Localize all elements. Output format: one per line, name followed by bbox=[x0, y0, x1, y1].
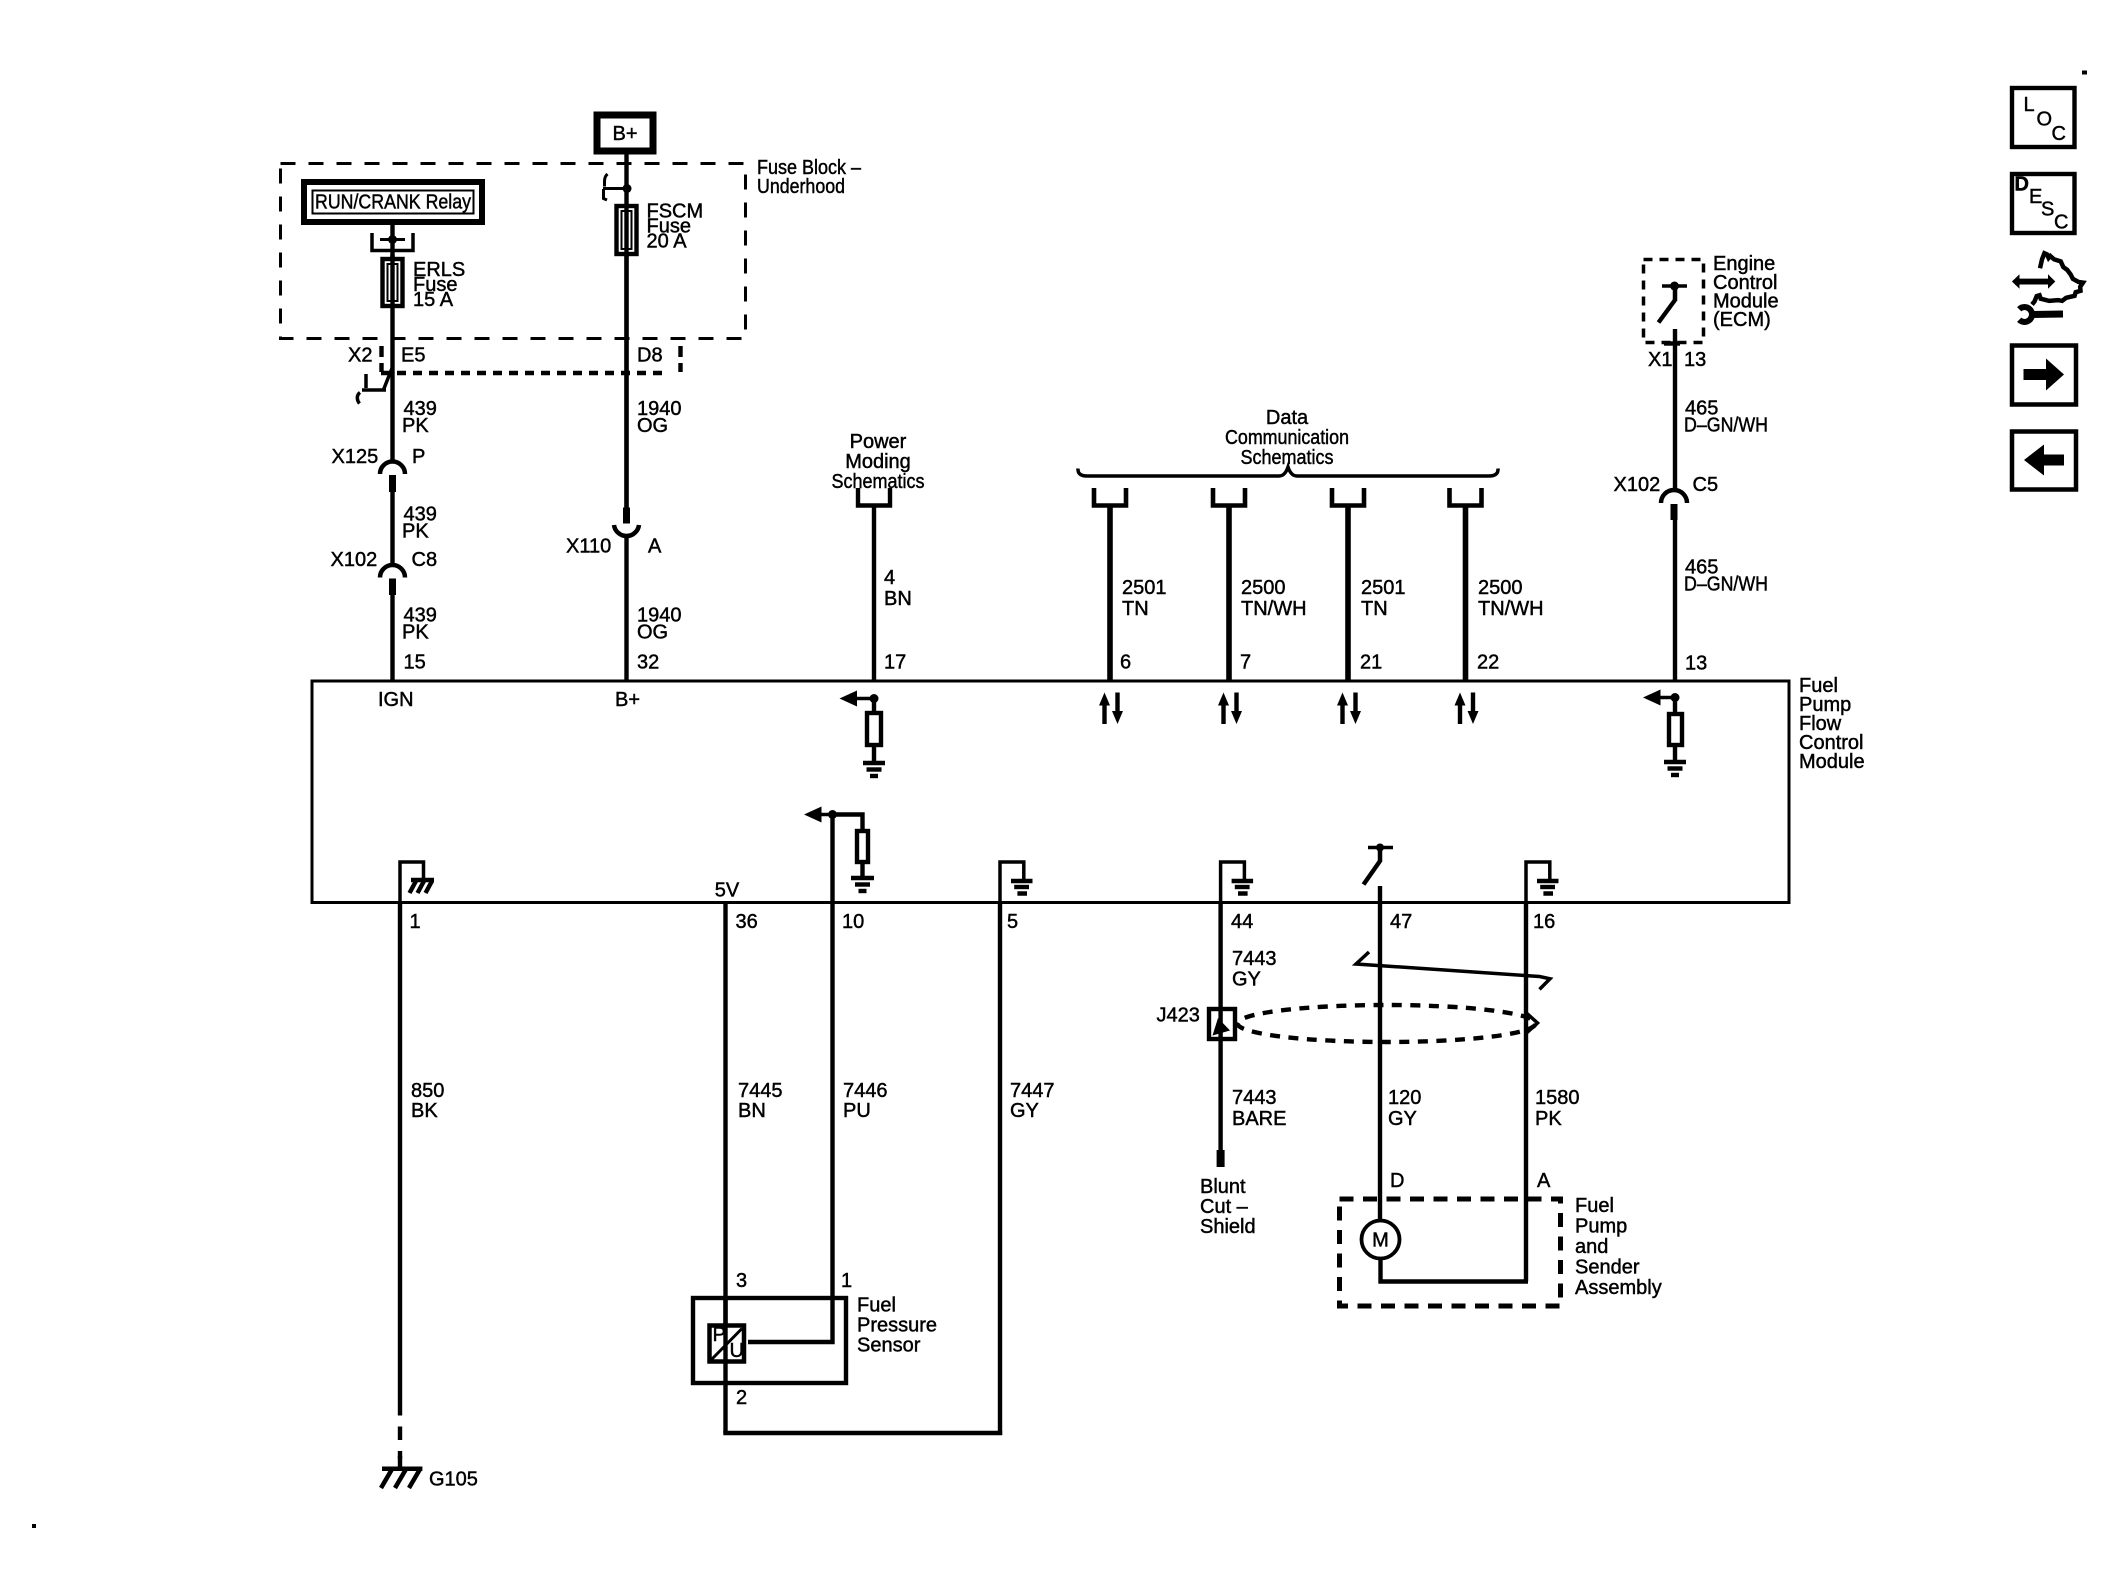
svg-text:2501: 2501 bbox=[1361, 577, 1406, 599]
connector X102 C5 in-line bbox=[1661, 490, 1687, 503]
svg-text:850: 850 bbox=[411, 1080, 444, 1102]
svg-text:TN/WH: TN/WH bbox=[1478, 598, 1544, 620]
wire 120 GY pin 47 to fuel pump motor bbox=[1378, 904, 1382, 1221]
blunt cut stub bbox=[1217, 1150, 1225, 1167]
svg-text:TN/WH: TN/WH bbox=[1241, 598, 1307, 620]
svg-text:17: 17 bbox=[884, 652, 906, 674]
svg-text:Shield: Shield bbox=[1200, 1216, 1256, 1238]
svg-text:S: S bbox=[2041, 199, 2054, 221]
svg-text:7443: 7443 bbox=[1232, 948, 1277, 970]
twisted leads symbol bbox=[1356, 952, 1550, 989]
svg-text:2: 2 bbox=[736, 1387, 747, 1409]
module Fuel Pump Flow Control Module box bbox=[312, 681, 1789, 903]
svg-text:13: 13 bbox=[1685, 653, 1707, 675]
svg-text:120: 120 bbox=[1388, 1087, 1421, 1109]
svg-text:X1: X1 bbox=[1648, 349, 1672, 371]
internal bidirectional arrows at pin 7 bbox=[1218, 693, 1242, 725]
internal earth ground at pin 5 bbox=[1000, 862, 1024, 904]
splice tab at B+ node bbox=[603, 174, 627, 200]
svg-text:G105: G105 bbox=[429, 1468, 478, 1490]
svg-text:7447: 7447 bbox=[1010, 1080, 1055, 1102]
internal bidirectional arrows at pin 22 bbox=[1455, 693, 1479, 725]
svg-text:GY: GY bbox=[1232, 968, 1261, 990]
fuse block underhood dashed box bbox=[281, 164, 746, 339]
wire ECM output bbox=[1673, 329, 1677, 490]
wire 1580 PK pin 16 to fuel pump bbox=[1524, 904, 1528, 1282]
internal earth ground at pin 44 bbox=[1221, 862, 1245, 904]
svg-text:X102: X102 bbox=[1614, 474, 1661, 496]
svg-text:7: 7 bbox=[1240, 652, 1251, 674]
svg-text:OG: OG bbox=[637, 622, 668, 644]
svg-text:BN: BN bbox=[884, 588, 912, 610]
wire B+ feed to FSCM fuse bbox=[624, 154, 628, 508]
internal arrow at pin 17 bbox=[855, 697, 874, 701]
wire 850 BK pin 1 to G105 bbox=[398, 904, 402, 1402]
wire 7446 PU pin 10 to sensor bbox=[748, 815, 833, 1343]
wire sensor bottom return bbox=[723, 1431, 1002, 1435]
svg-text:P: P bbox=[713, 1324, 726, 1346]
icon LOC box bbox=[2012, 88, 2075, 147]
svg-text:Sensor: Sensor bbox=[857, 1334, 921, 1356]
wire relay output bbox=[390, 225, 394, 257]
internal resistor at pin 13 bbox=[1673, 698, 1677, 715]
svg-text:1: 1 bbox=[841, 1270, 852, 1292]
wire 2501 TN to pin 6 bbox=[1107, 506, 1113, 680]
svg-text:A: A bbox=[648, 535, 662, 557]
svg-text:Moding: Moding bbox=[845, 451, 911, 473]
connector X125 P in-line bbox=[380, 462, 405, 474]
svg-text:RUN/CRANK Relay: RUN/CRANK Relay bbox=[315, 192, 471, 214]
svg-text:PK: PK bbox=[402, 622, 429, 644]
icon double arrow bbox=[2012, 274, 2055, 289]
svg-text:2501: 2501 bbox=[1122, 577, 1167, 599]
wire 465 D-GN/WH to module pin 13 bbox=[1673, 520, 1677, 680]
svg-text:X125: X125 bbox=[332, 446, 379, 468]
connector X110 A in-line bbox=[623, 508, 630, 524]
svg-text:D8: D8 bbox=[637, 345, 663, 367]
wire 7447 GY pin 5 to sensor return bbox=[998, 904, 1002, 1435]
svg-text:2500: 2500 bbox=[1478, 577, 1523, 599]
svg-text:Blunt: Blunt bbox=[1200, 1176, 1246, 1198]
svg-text:A: A bbox=[1537, 1170, 1551, 1192]
stray mark top right bbox=[2082, 71, 2087, 75]
svg-text:C8: C8 bbox=[412, 549, 438, 571]
svg-text:Sender: Sender bbox=[1575, 1256, 1640, 1278]
wire 2500 TN/WH to pin 7 bbox=[1226, 506, 1232, 680]
svg-text:22: 22 bbox=[1477, 652, 1499, 674]
svg-text:3: 3 bbox=[736, 1270, 747, 1292]
splice arrow inside J423 bbox=[1213, 1018, 1231, 1036]
svg-text:C: C bbox=[2054, 212, 2068, 234]
svg-text:L: L bbox=[2024, 94, 2035, 116]
svg-text:E5: E5 bbox=[401, 345, 425, 367]
wire 2500 TN/WH to pin 22 bbox=[1463, 506, 1469, 680]
connector strip dotted line bbox=[381, 371, 666, 376]
svg-text:Power: Power bbox=[850, 431, 907, 453]
internal arrow at pin 13 bbox=[1659, 696, 1675, 700]
ground G105 bbox=[382, 1467, 422, 1472]
off-page connector Power Moding bbox=[858, 488, 890, 506]
svg-text:21: 21 bbox=[1360, 652, 1382, 674]
connector D8 tick bbox=[678, 346, 682, 372]
icon vehicle outline bbox=[2032, 253, 2083, 304]
wire motor to pump return bbox=[1378, 1258, 1382, 1284]
internal resistor at pin 17 bbox=[872, 699, 876, 714]
svg-text:PU: PU bbox=[843, 1100, 871, 1122]
ECM pin bar bbox=[1664, 341, 1680, 345]
icon next arrow box bbox=[2012, 346, 2076, 405]
svg-text:TN: TN bbox=[1122, 598, 1149, 620]
wire 439 PK from ERLS fuse to X125 bbox=[390, 255, 394, 463]
icon back arrow box bbox=[2012, 432, 2076, 490]
svg-text:13: 13 bbox=[1684, 349, 1706, 371]
off-page connector serial data 3 bbox=[1332, 488, 1364, 506]
off-page connector serial data 1 bbox=[1094, 488, 1126, 506]
relay output cavity symbol bbox=[372, 233, 413, 251]
svg-text:36: 36 bbox=[736, 911, 758, 933]
svg-text:C: C bbox=[2052, 123, 2066, 145]
svg-text:(ECM): (ECM) bbox=[1713, 309, 1771, 331]
internal bidirectional arrows at pin 6 bbox=[1099, 693, 1123, 725]
wire 1940 OG fuse to X110 bbox=[624, 254, 628, 508]
svg-text:X110: X110 bbox=[566, 535, 611, 557]
wire 4 BN to module pin 17 bbox=[872, 506, 876, 680]
svg-text:Assembly: Assembly bbox=[1575, 1277, 1662, 1299]
internal resistor branch at pin 10 bbox=[833, 815, 863, 832]
splice tab at X2/E5 bbox=[357, 367, 392, 404]
internal chassis ground at pin 1 bbox=[400, 862, 424, 904]
svg-text:OG: OG bbox=[637, 415, 668, 437]
svg-text:Module: Module bbox=[1799, 751, 1865, 773]
svg-text:2500: 2500 bbox=[1241, 577, 1286, 599]
svg-text:Pressure: Pressure bbox=[857, 1315, 937, 1337]
wire 7445 BN pin 36 to sensor bbox=[723, 904, 727, 1433]
svg-text:D–GN/WH: D–GN/WH bbox=[1684, 574, 1768, 596]
stray mark bottom left bbox=[32, 1524, 36, 1528]
wire 1940 OG X110 to module pin 32 bbox=[624, 537, 628, 680]
svg-text:7443: 7443 bbox=[1232, 1087, 1277, 1109]
internal ground at pin 10 branch bbox=[851, 876, 874, 880]
motor M fuel pump bbox=[1362, 1221, 1400, 1259]
internal pull-up at pin 17: junction dot bbox=[870, 694, 879, 703]
svg-text:20 A: 20 A bbox=[647, 231, 688, 253]
icon wrench bbox=[2019, 307, 2032, 322]
wire 7443 GY pin 44 to J423 bbox=[1218, 904, 1222, 1152]
wire sensor internal pin3 through P/U bbox=[723, 1298, 727, 1325]
connector X102 C8 in-line bbox=[380, 565, 405, 577]
svg-text:10: 10 bbox=[842, 911, 864, 933]
svg-text:44: 44 bbox=[1231, 911, 1253, 933]
svg-text:M: M bbox=[1372, 1230, 1389, 1252]
svg-text:1: 1 bbox=[410, 911, 421, 933]
splice J423 box bbox=[1209, 1009, 1235, 1039]
svg-text:BK: BK bbox=[411, 1100, 438, 1122]
node B+ battery box bbox=[597, 115, 653, 151]
svg-text:Underhood: Underhood bbox=[757, 176, 845, 198]
svg-text:Schematics: Schematics bbox=[832, 471, 925, 493]
svg-text:Data: Data bbox=[1266, 407, 1309, 429]
junction dot on B+ wire bbox=[623, 184, 632, 193]
svg-text:6: 6 bbox=[1120, 652, 1131, 674]
wire 439 PK X125 to X102 bbox=[390, 492, 394, 566]
fuse FSCM Fuse 20 A bbox=[617, 206, 637, 254]
internal ground at pin 13 bbox=[1664, 760, 1686, 764]
wire 439 PK X102 to module pin 15 bbox=[390, 595, 394, 680]
svg-text:7445: 7445 bbox=[738, 1080, 783, 1102]
svg-text:Fuel: Fuel bbox=[857, 1294, 896, 1316]
svg-text:4: 4 bbox=[884, 567, 895, 589]
internal 5V pull-up at pin 10: junction dot and arrow bbox=[828, 810, 837, 819]
svg-text:BARE: BARE bbox=[1232, 1108, 1286, 1130]
svg-text:U: U bbox=[730, 1340, 744, 1362]
svg-text:PK: PK bbox=[402, 521, 429, 543]
svg-text:PK: PK bbox=[1535, 1108, 1562, 1130]
internal pull-up at pin 13: junction dot bbox=[1671, 693, 1680, 702]
fuse ERLS Fuse 15 A bbox=[383, 259, 403, 306]
svg-text:and: and bbox=[1575, 1236, 1608, 1258]
svg-text:32: 32 bbox=[637, 652, 659, 674]
svg-text:Cut –: Cut – bbox=[1200, 1196, 1249, 1218]
svg-text:47: 47 bbox=[1390, 911, 1412, 933]
svg-text:1580: 1580 bbox=[1535, 1087, 1580, 1109]
svg-text:J423: J423 bbox=[1157, 1004, 1200, 1026]
shield arrow chevron bbox=[1526, 1014, 1538, 1034]
relay RUN/CRANK Relay box bbox=[304, 182, 482, 222]
svg-text:Fuel: Fuel bbox=[1575, 1195, 1614, 1217]
svg-text:GY: GY bbox=[1388, 1108, 1417, 1130]
off-page connector serial data 2 bbox=[1213, 488, 1245, 506]
icon DESC box bbox=[2012, 174, 2075, 233]
svg-text:7446: 7446 bbox=[843, 1080, 888, 1102]
svg-text:15 A: 15 A bbox=[413, 289, 454, 311]
svg-text:C5: C5 bbox=[1693, 474, 1719, 496]
svg-text:PK: PK bbox=[402, 415, 429, 437]
internal earth ground at pin 16 bbox=[1526, 862, 1550, 904]
svg-text:Communication: Communication bbox=[1225, 427, 1349, 449]
svg-text:Pump: Pump bbox=[1575, 1215, 1627, 1237]
svg-text:B+: B+ bbox=[615, 689, 640, 711]
svg-text:TN: TN bbox=[1361, 598, 1388, 620]
svg-text:5V: 5V bbox=[715, 880, 740, 902]
connector X2 tick bbox=[379, 346, 383, 372]
svg-text:D: D bbox=[1390, 1170, 1404, 1192]
assembly Fuel Pump and Sender dashed box bbox=[1340, 1199, 1561, 1306]
svg-text:5: 5 bbox=[1007, 911, 1018, 933]
internal bidirectional arrows at pin 21 bbox=[1337, 693, 1361, 725]
svg-text:D: D bbox=[2015, 174, 2029, 196]
svg-text:B+: B+ bbox=[612, 123, 637, 145]
off-page connector serial data 4 bbox=[1450, 488, 1482, 506]
svg-text:X102: X102 bbox=[331, 549, 378, 571]
svg-text:BN: BN bbox=[738, 1100, 766, 1122]
ECM internal driver symbol bbox=[1662, 284, 1687, 288]
sensor P/U transducer symbol bbox=[710, 1326, 745, 1362]
svg-text:O: O bbox=[2037, 109, 2053, 131]
svg-text:IGN: IGN bbox=[378, 689, 414, 711]
svg-text:P: P bbox=[412, 446, 425, 468]
shield ellipse around twisted pair bbox=[1238, 1005, 1536, 1042]
wire 2501 TN to pin 21 bbox=[1345, 506, 1351, 680]
svg-text:D–GN/WH: D–GN/WH bbox=[1684, 415, 1768, 437]
module ECM dashed box bbox=[1644, 260, 1704, 343]
brace for data communication bbox=[1078, 467, 1498, 476]
svg-text:15: 15 bbox=[404, 652, 426, 674]
internal ground at pin 17 bbox=[863, 761, 885, 765]
sensor Fuel Pressure Sensor box bbox=[693, 1298, 846, 1383]
svg-text:X2: X2 bbox=[348, 345, 372, 367]
svg-text:GY: GY bbox=[1010, 1100, 1039, 1122]
internal switch driver at pin 47 bbox=[1368, 846, 1393, 850]
svg-text:16: 16 bbox=[1533, 911, 1555, 933]
